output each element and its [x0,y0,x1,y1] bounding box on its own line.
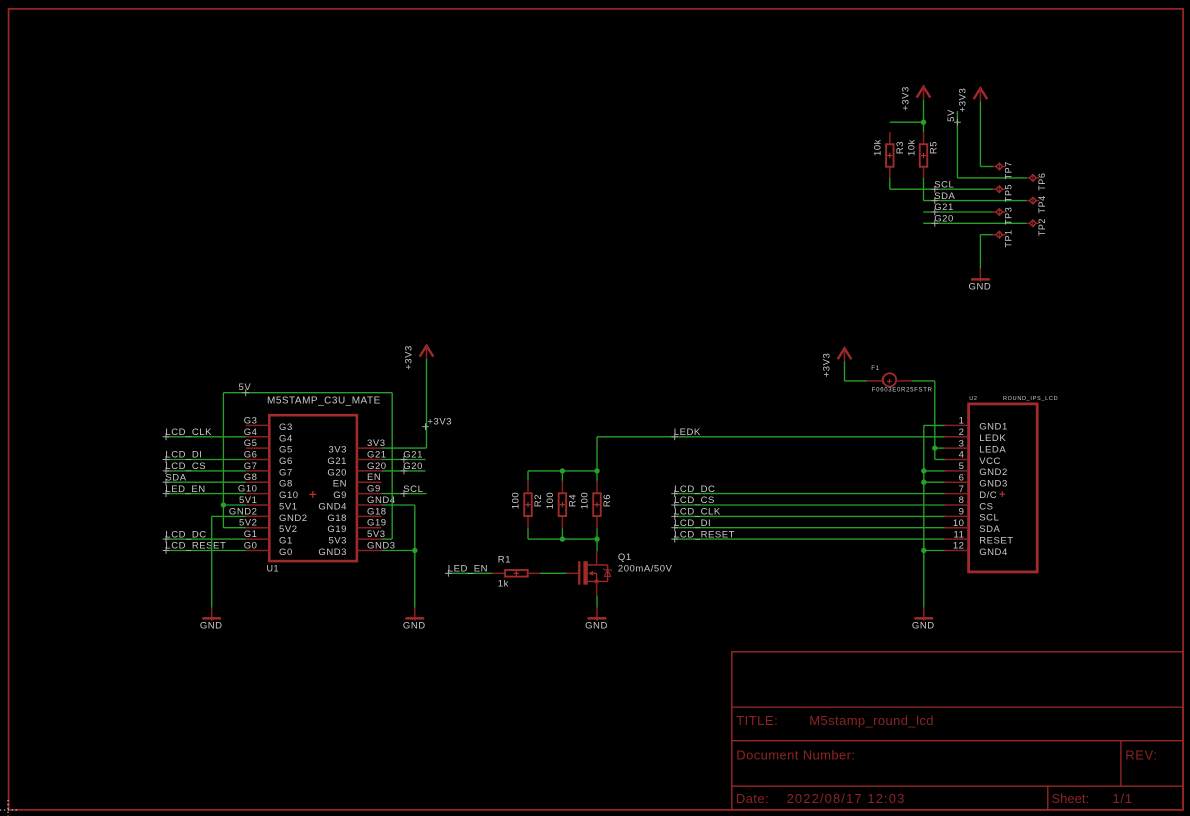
wire LCD_DC to U1 [163,529,246,542]
U2 pin 4 VCC [945,450,1001,467]
U2 pin 2 LEDK [945,427,1007,444]
label LEDK [671,427,701,440]
U2 pin 9 SCL [945,507,1000,524]
testpoint TP5 [993,184,1013,202]
svg-text:F1: F1 [871,366,879,372]
wire LCD_DI to U1 [163,450,246,463]
svg-text:RESET: RESET [979,535,1013,546]
svg-text:Date:: Date: [736,791,769,806]
svg-text:TP4: TP4 [1037,195,1047,213]
svg-text:SCL: SCL [403,484,423,495]
svg-text:+3V3: +3V3 [901,86,912,111]
wire LCD_RESET to U2 [671,529,944,542]
svg-text:G6: G6 [279,456,293,467]
svg-text:G10: G10 [279,490,299,501]
svg-text:Document Number:: Document Number: [736,748,855,763]
wire LEDK net [597,437,945,471]
svg-text:GND: GND [403,620,426,631]
U1 pin G7 (left) [244,461,293,479]
title block text Document Number [736,748,855,763]
svg-text:LCD_CLK: LCD_CLK [165,427,212,438]
U2 pin 1 GND1 [945,416,1008,433]
testpoint TP7 [993,161,1013,179]
U2 pin 7 D/C [945,484,998,501]
svg-text:G9: G9 [367,484,381,495]
U1 pin G10 (left) [238,484,299,502]
testpoint TP1 [993,229,1013,247]
wire 5V to TP6 [946,109,1027,178]
svg-text:F0603E0R25FSTR: F0603E0R25FSTR [872,388,933,394]
svg-text:G20: G20 [403,461,423,472]
svg-text:+3V3: +3V3 [427,417,452,428]
svg-text:4: 4 [959,450,965,461]
svg-text:GND: GND [585,620,608,631]
svg-text:GND: GND [912,620,935,631]
U1 pin G3 (left) [244,415,293,433]
svg-text:G5: G5 [279,445,293,456]
label SDA (top) [931,191,955,204]
U2 pin 8 CS [945,495,994,512]
power +3V3 above U1 [404,345,434,448]
U1 pin 5V2 (left) [239,518,298,536]
svg-text:LCD_DC: LCD_DC [165,529,206,540]
title block text Date [736,791,769,806]
U1 pin G9 (right) [333,484,381,502]
U1 pin EN (right) [333,472,382,490]
svg-text:7: 7 [959,484,965,495]
wire SDA to U1 [163,472,246,485]
wire Q1 drain to resistor rail [596,539,598,551]
wire G21 to TP3 [923,202,993,215]
power +3V3 above R3 R5 [901,86,931,111]
svg-text:EN: EN [367,472,381,483]
U1 pin G21 (right) [327,450,386,468]
sheet origin cross [0,800,19,816]
svg-text:5: 5 [959,461,965,472]
U1 pin G0 (left) [244,541,293,559]
svg-text:VCC: VCC [979,456,1001,467]
power +3V3 above F1 [822,348,852,377]
U1 pin 5V3 (right) [328,529,385,547]
title block text TITLE [736,713,778,728]
svg-text:U1: U1 [267,564,280,574]
svg-text:G8: G8 [279,479,293,490]
svg-text:LCD_DI: LCD_DI [674,518,711,529]
wire SCL from U1 G9 [381,484,426,497]
svg-text:6: 6 [959,472,965,483]
svg-text:LEDK: LEDK [979,433,1006,444]
U1 pin G5 (left) [244,438,293,456]
svg-text:LED_EN: LED_EN [165,484,205,495]
wire SCL from R3 to TP5 [890,178,993,189]
wire Q1 source to ground [596,595,598,607]
title block sheet value [1113,791,1133,806]
resistor R5 10k [906,132,939,178]
svg-text:10k: 10k [873,139,884,156]
svg-text:G19: G19 [327,524,347,535]
svg-text:G21: G21 [934,202,954,213]
U1 pin GND2 (left) [229,506,308,524]
svg-text:R2: R2 [533,494,544,507]
testpoint TP4 [1027,195,1047,213]
svg-text:SDA: SDA [979,524,1000,535]
svg-text:G4: G4 [279,433,293,444]
svg-text:12: 12 [953,541,965,552]
U1 pin GND3 (right) [318,541,395,559]
wire U2 ground bus [921,425,944,607]
svg-text:2: 2 [959,427,965,438]
U2 pin 3 LEDA [945,438,1007,455]
resistor R4 100 [545,471,578,539]
svg-text:G7: G7 [279,467,293,478]
svg-text:LED_EN: LED_EN [448,563,488,574]
svg-text:G19: G19 [367,518,387,529]
svg-text:GND2: GND2 [279,513,308,524]
svg-text:TP1: TP1 [1003,229,1013,247]
wire R1 to Q1 gate [540,572,567,574]
wire LCD_DC to U2 [671,484,944,497]
svg-text:+3V3: +3V3 [958,88,969,113]
ground GND (below Q1) [585,608,608,632]
svg-text:11: 11 [954,529,965,540]
svg-text:G21: G21 [327,456,347,467]
testpoint TP2 [1027,218,1047,236]
svg-text:GND4: GND4 [979,547,1008,558]
svg-text:TP3: TP3 [1003,207,1013,225]
resistor R6 100 [580,471,613,539]
svg-text:GND1: GND1 [979,422,1008,433]
U2 pin 5 GND2 [945,461,1008,478]
svg-text:2022/08/17 12:03: 2022/08/17 12:03 [787,791,906,806]
wire resistor bottom rail [528,536,600,541]
svg-text:Q1: Q1 [618,552,632,563]
U1 pin G19 (right) [327,518,386,536]
wire 5V net at U1 [221,393,393,539]
svg-text:5V: 5V [239,382,252,393]
svg-text:SDA: SDA [934,191,955,202]
U2 pin 10 SDA [945,518,1001,535]
fuse F1 F0603E0R25FSTR [867,366,933,394]
svg-text:+3V3: +3V3 [404,345,415,370]
wire G20 stub right of U1 [381,461,425,474]
svg-text:G21: G21 [403,450,423,461]
svg-text:200mA/50V: 200mA/50V [618,564,673,575]
svg-text:GND: GND [969,281,992,292]
svg-text:G18: G18 [367,506,387,517]
svg-text:G3: G3 [244,415,258,426]
svg-text:GND3: GND3 [318,547,347,558]
svg-text:R5: R5 [929,141,940,154]
svg-text:GND: GND [200,620,223,631]
U1 pin G20 (right) [327,461,386,479]
testpoint TP6 [1027,173,1047,191]
svg-text:3V3: 3V3 [328,445,347,456]
U2 pin 11 RESET [945,529,1014,546]
svg-text:LCD_CS: LCD_CS [674,495,715,506]
U2 pin 6 GND3 [945,472,1008,489]
transistor Q1 n-MOSFET [567,551,673,595]
ground GND (below U2) [912,608,935,632]
svg-text:SCL: SCL [934,179,954,190]
label SCL (top) [931,179,954,192]
wire LED_EN to U1 [163,484,246,497]
svg-text:1: 1 [959,416,965,427]
svg-text:5V1: 5V1 [279,502,298,513]
svg-text:3: 3 [959,438,965,449]
title block text Sheet [1052,791,1090,806]
U1 pin G1 (left) [244,529,293,547]
U1 pin G8 (left) [244,472,293,490]
svg-text:GND4: GND4 [318,502,347,513]
U1 pin G18 (right) [327,506,386,524]
svg-text:LCD_RESET: LCD_RESET [165,541,226,552]
U2 pin 12 GND4 [945,541,1008,558]
svg-text:LCD_CS: LCD_CS [165,461,206,472]
svg-text:Sheet:: Sheet: [1052,791,1090,806]
svg-text:G5: G5 [244,438,258,449]
svg-text:G20: G20 [327,467,347,478]
svg-text:100: 100 [580,492,591,510]
svg-text:LCD_DI: LCD_DI [165,450,202,461]
svg-text:5V3: 5V3 [328,536,347,547]
svg-text:1/1: 1/1 [1113,791,1133,806]
U1 pin G6 (left) [244,450,293,468]
svg-text:10: 10 [953,518,965,529]
wire resistor top rail [528,468,600,473]
svg-text:GND3: GND3 [979,479,1008,490]
svg-text:100: 100 [511,492,522,510]
svg-text:U2: U2 [969,396,977,402]
svg-text:D/C: D/C [979,490,997,501]
ground GND (top right) [969,269,992,293]
U1 pin 5V1 (left) [239,495,298,513]
svg-text:LCD_DC: LCD_DC [674,484,715,495]
svg-text:R6: R6 [602,494,613,507]
svg-text:1k: 1k [498,579,509,590]
wire +3V3 to F1 [845,362,868,381]
svg-text:G0: G0 [279,547,293,558]
svg-text:R1: R1 [498,555,511,566]
svg-text:100: 100 [545,492,556,510]
svg-text:LCD_CLK: LCD_CLK [674,507,721,518]
svg-text:ROUND_IPS_LCD: ROUND_IPS_LCD [1003,396,1058,402]
wire LCD_DI to U2 [671,518,944,531]
wire GND2 from U1 to ground [212,516,246,607]
svg-text:R4: R4 [567,494,578,507]
svg-text:LCD_RESET: LCD_RESET [674,529,735,540]
wire F1 to U2 VCC and LEDA [912,381,945,460]
svg-text:G9: G9 [333,490,347,501]
resistor R3 10k [873,132,906,178]
svg-text:GND2: GND2 [979,467,1008,478]
svg-text:TP5: TP5 [1003,184,1013,202]
wire GND4/GND3 of U1 to ground [381,505,417,608]
label +3V3 on wire [422,417,452,430]
svg-text:9: 9 [959,507,965,518]
title block value M5stamp_round_lcd [809,713,934,728]
resistor R1 1k [493,555,540,590]
svg-text:TP7: TP7 [1003,161,1013,179]
power +3V3 above TP7 [958,88,988,113]
label 5V [239,382,252,396]
U1 pin 3V3 (right) [328,438,385,456]
svg-text:M5STAMP_C3U_MATE: M5STAMP_C3U_MATE [267,396,381,407]
wire LCD_CS to U2 [671,495,944,508]
svg-text:G1: G1 [279,536,293,547]
svg-text:TP2: TP2 [1037,218,1047,236]
svg-text:TP6: TP6 [1037,173,1047,191]
svg-text:5V2: 5V2 [279,524,298,535]
wire LED_EN to R1 [445,563,493,576]
svg-text:SDA: SDA [165,472,186,483]
wire TP1 to ground [980,235,993,269]
svg-text:10k: 10k [906,139,917,156]
svg-text:5V: 5V [946,109,957,122]
svg-text:8: 8 [959,495,965,506]
resistor R2 100 [511,471,544,539]
svg-text:SCL: SCL [979,513,999,524]
title block text REV [1125,748,1157,763]
U1 pin GND4 (right) [318,495,395,513]
title block frame [732,652,1183,810]
wire G21 stub right of U1 [381,450,425,463]
wire +3V3 rail to R3 R5 [890,100,926,132]
wire LCD_CLK to U1 [163,427,246,440]
ground GND (below U1 right) [403,608,426,632]
svg-text:+3V3: +3V3 [822,353,833,378]
title block date value [787,791,906,806]
svg-text:CS: CS [979,501,993,512]
svg-text:LEDA: LEDA [979,444,1006,455]
svg-text:M5stamp_round_lcd: M5stamp_round_lcd [809,713,934,728]
svg-text:G18: G18 [327,513,347,524]
wire LCD_CS to U1 [163,461,246,474]
wire LCD_RESET to U1 [163,541,246,554]
wire G20 to TP2 [923,214,1026,227]
wire LCD_CLK to U2 [671,507,944,520]
svg-text:G3: G3 [279,422,293,433]
wire +3V3 to TP7 [980,102,993,167]
svg-text:R3: R3 [895,141,906,154]
wire 3V3 from U1 to +3V3 [381,447,426,449]
op-amp U1 M5STAMP_C3U_MATE box [267,396,381,574]
connector U2 ROUND_IPS_LCD box [969,396,1059,572]
svg-text:REV:: REV: [1125,748,1157,763]
ground GND (below U1 left) [200,608,223,632]
svg-text:TITLE:: TITLE: [736,713,778,728]
svg-text:G20: G20 [934,214,954,225]
svg-text:EN: EN [333,479,347,490]
wire SDA from R5 to TP4 [924,178,1027,201]
U1 pin G4 (left) [244,427,293,445]
testpoint TP3 [993,207,1013,225]
